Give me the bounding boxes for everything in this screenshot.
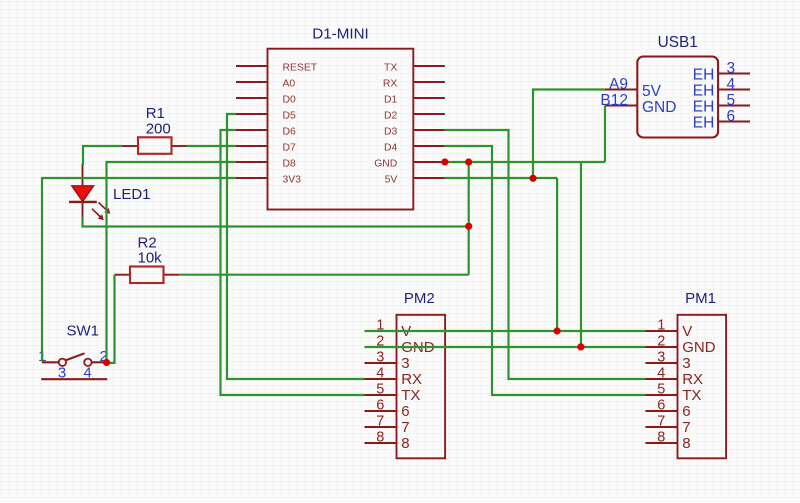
svg-text:D1-MINI: D1-MINI <box>312 26 369 43</box>
pin 5 TX (PM2) <box>365 382 421 405</box>
svg-text:7: 7 <box>376 414 384 430</box>
wire 5V up to USB1 5V <box>533 90 605 179</box>
svg-text:7: 7 <box>657 414 665 430</box>
pin 8 8 (PM2) <box>365 430 410 453</box>
wire GND branch down at 468 <box>468 162 470 275</box>
svg-text:PM1: PM1 <box>685 290 716 307</box>
svg-text:EH: EH <box>693 67 715 84</box>
wire D3 to PM1 RX <box>445 130 646 379</box>
resistor R1 <box>122 137 187 154</box>
pin 4 EH (USB1 right) <box>693 76 750 100</box>
svg-text:RX: RX <box>401 371 422 388</box>
svg-text:10k: 10k <box>138 249 163 266</box>
junction 5V USB branch <box>529 175 536 182</box>
pin D2 (D1-MINI right) <box>384 111 445 122</box>
wire V row PM2 to PM1 <box>365 330 646 332</box>
svg-text:8: 8 <box>401 435 409 452</box>
svg-text:7: 7 <box>682 419 690 436</box>
svg-text:8: 8 <box>682 435 690 452</box>
svg-text:GND: GND <box>642 99 676 116</box>
svg-text:RX: RX <box>383 79 398 90</box>
svg-text:EH: EH <box>693 83 715 100</box>
svg-text:6: 6 <box>682 403 690 420</box>
pin A9 5V (USB1) <box>605 76 662 100</box>
wire D4 to PM1 TX <box>445 146 646 395</box>
wire LED cathode to GND vertical <box>83 217 469 227</box>
svg-text:3: 3 <box>58 364 66 381</box>
svg-text:6: 6 <box>727 108 736 125</box>
pin RESET (D1-MINI left) <box>236 63 318 74</box>
svg-text:TX: TX <box>384 63 397 74</box>
connector PM2 body <box>397 315 446 459</box>
pin A0 (D1-MINI left) <box>236 79 295 90</box>
junction LED cathode net <box>465 223 472 230</box>
svg-text:4: 4 <box>376 366 384 382</box>
junction SW1 pin2 <box>103 359 110 366</box>
wire D6 to PM2 TX <box>221 130 365 395</box>
svg-text:TX: TX <box>401 387 420 404</box>
svg-text:RX: RX <box>682 371 703 388</box>
svg-text:6: 6 <box>401 403 409 420</box>
svg-text:D3: D3 <box>384 127 398 138</box>
junction GND branch <box>465 158 472 165</box>
junction V row <box>554 327 561 334</box>
svg-text:3: 3 <box>727 60 736 77</box>
svg-text:7: 7 <box>401 419 409 436</box>
pin 4 RX (PM2) <box>365 366 423 389</box>
wire 5V down to PM V row <box>556 178 558 331</box>
wire R2 right to GND vertical <box>179 274 469 276</box>
pin 5 EH (USB1 right) <box>693 92 750 116</box>
pin D5 (D1-MINI left) <box>236 111 296 122</box>
wire GND branch down to PM GND row <box>580 163 582 347</box>
pin 7 7 (PM2) <box>365 414 410 437</box>
svg-text:D2: D2 <box>384 111 398 122</box>
pin 5V (D1-MINI right) <box>385 175 445 186</box>
svg-text:3: 3 <box>657 350 665 366</box>
pin D1 (D1-MINI right) <box>384 95 445 106</box>
wire GND up to USB1 GND <box>604 106 606 163</box>
wire R2 left to SW1 pin2 <box>107 275 115 363</box>
connector USB1 body <box>637 57 718 138</box>
wire 5V horizontal from D1-MINI 5V <box>445 177 557 179</box>
svg-text:USB1: USB1 <box>658 34 698 51</box>
LED LED1 <box>69 164 110 221</box>
junction GND row <box>577 343 584 350</box>
pin 7 7 (PM1) <box>646 414 691 437</box>
svg-text:200: 200 <box>146 120 171 137</box>
pin 3V3 (D1-MINI left) <box>236 175 301 186</box>
pin D6 (D1-MINI left) <box>236 127 296 138</box>
svg-text:5: 5 <box>376 382 384 398</box>
svg-text:EH: EH <box>693 99 715 116</box>
svg-text:8: 8 <box>657 430 665 446</box>
switch SW1 <box>41 353 107 379</box>
svg-text:5V: 5V <box>385 175 398 186</box>
svg-text:D0: D0 <box>283 95 297 106</box>
wire 3V3 to SW1 pin1 <box>42 178 236 362</box>
svg-text:5: 5 <box>657 382 665 398</box>
wire D5 to PM2 RX <box>227 114 365 379</box>
svg-text:3: 3 <box>682 355 690 372</box>
connector PM1 body <box>678 315 727 459</box>
svg-text:GND: GND <box>374 159 397 170</box>
svg-text:3V3: 3V3 <box>283 175 302 186</box>
pin 8 8 (PM1) <box>646 430 691 453</box>
svg-text:TX: TX <box>682 387 701 404</box>
svg-text:D5: D5 <box>283 111 297 122</box>
svg-text:2: 2 <box>657 334 665 350</box>
pin 5 TX (PM1) <box>646 382 702 405</box>
svg-text:D6: D6 <box>283 127 297 138</box>
svg-text:PM2: PM2 <box>404 290 435 307</box>
pin D0 (D1-MINI left) <box>236 95 296 106</box>
svg-text:4: 4 <box>657 366 665 382</box>
svg-text:4: 4 <box>83 364 91 381</box>
pin 1 V (PM1) <box>646 318 693 341</box>
svg-text:A0: A0 <box>283 79 296 90</box>
svg-text:4: 4 <box>727 76 736 93</box>
svg-text:EH: EH <box>693 115 715 132</box>
svg-text:5V: 5V <box>642 83 662 100</box>
junction GND pin <box>441 158 448 165</box>
module U1 D1-MINI body <box>268 49 414 210</box>
svg-text:A9: A9 <box>609 76 628 93</box>
pin 6 6 (PM2) <box>365 398 410 421</box>
svg-text:GND: GND <box>682 339 716 356</box>
pin 2 GND (PM2) <box>365 334 435 357</box>
svg-text:V: V <box>682 323 692 340</box>
pin D4 (D1-MINI right) <box>384 143 445 154</box>
svg-text:5: 5 <box>727 92 736 109</box>
wire GND row PM2 to PM1 <box>365 346 646 348</box>
wire R1 right to D7 <box>187 145 237 147</box>
pin 3 3 (PM2) <box>365 350 410 373</box>
svg-text:D1: D1 <box>384 95 398 106</box>
svg-text:6: 6 <box>376 398 384 414</box>
pin 6 EH (USB1 right) <box>693 108 750 132</box>
resistor R2 <box>115 267 180 284</box>
svg-text:SW1: SW1 <box>67 322 100 339</box>
pin 6 6 (PM1) <box>646 398 691 421</box>
svg-text:3: 3 <box>401 355 409 372</box>
svg-text:6: 6 <box>657 398 665 414</box>
svg-text:D7: D7 <box>283 143 297 154</box>
pin 2 GND (PM1) <box>646 334 716 357</box>
svg-text:D8: D8 <box>283 159 297 170</box>
pin 1 V (PM2) <box>365 318 412 341</box>
svg-text:1: 1 <box>657 318 665 334</box>
svg-text:8: 8 <box>376 430 384 446</box>
svg-text:3: 3 <box>376 350 384 366</box>
pin D7 (D1-MINI left) <box>236 143 296 154</box>
pin GND (D1-MINI right) <box>374 159 445 170</box>
wire R1 to LED anode <box>83 146 122 165</box>
svg-text:LED1: LED1 <box>113 186 151 203</box>
pin 4 RX (PM1) <box>646 366 704 389</box>
svg-text:D4: D4 <box>384 143 398 154</box>
pin D8 (D1-MINI left) <box>236 159 296 170</box>
pin RX (D1-MINI right) <box>383 79 445 90</box>
wire D8 to SW1 pin2 <box>107 162 237 362</box>
pin 3 3 (PM1) <box>646 350 691 373</box>
svg-text:RESET: RESET <box>283 63 318 74</box>
pin TX (D1-MINI right) <box>384 63 445 74</box>
wire GND horizontal from D1-MINI GND <box>445 161 605 163</box>
pin 3 EH (USB1 right) <box>693 60 750 84</box>
pin D3 (D1-MINI right) <box>384 127 445 138</box>
pin B12 GND (USB1) <box>600 92 676 116</box>
